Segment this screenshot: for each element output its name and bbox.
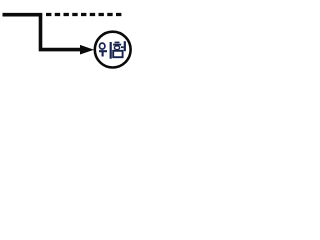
험 vowel vertical xyxy=(124,41,126,51)
험 top tick xyxy=(115,41,120,43)
background xyxy=(0,0,141,72)
위 bar xyxy=(99,50,107,52)
험 vowel tick xyxy=(121,46,124,48)
text 위험: glyph 험 xyxy=(113,41,125,57)
circle (danger balloon) xyxy=(95,32,131,68)
wire solid path (top line, corner, down, bottom line to arrow) xyxy=(3,15,81,50)
arrowhead xyxy=(80,45,94,55)
위 vertical xyxy=(110,42,112,59)
험 box xyxy=(113,51,122,57)
험 ring xyxy=(114,46,119,50)
text 위험: glyph 위 xyxy=(99,42,111,59)
dashed line xyxy=(46,13,122,16)
위 stem xyxy=(102,52,104,57)
험 bar xyxy=(113,44,121,46)
위 ring xyxy=(100,43,105,49)
